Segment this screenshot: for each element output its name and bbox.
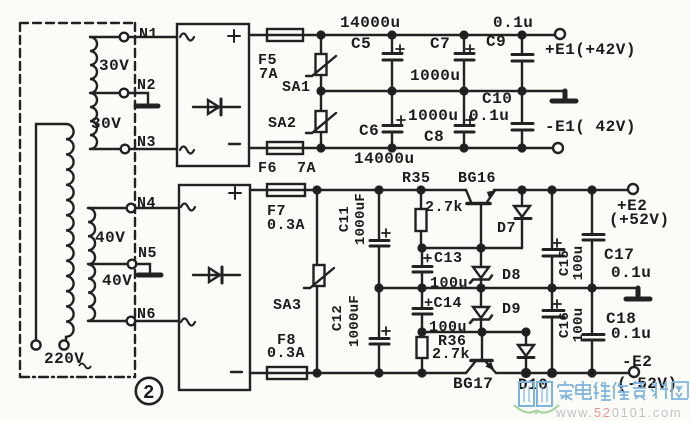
node D10 top — [523, 329, 530, 336]
node mid rail at C11 — [376, 285, 383, 292]
varistor SA1 — [306, 54, 336, 76]
transformer secondary winding 40V+40V — [88, 208, 95, 321]
svg-text:+C14: +C14 — [424, 295, 462, 312]
wire N5 stub — [136, 264, 150, 272]
bridge U2 diode symbol — [193, 267, 240, 283]
capacitor C13 — [413, 248, 432, 288]
capacitor C11 — [370, 190, 390, 288]
node BG17 base — [479, 329, 486, 336]
svg-text:D8: D8 — [502, 267, 521, 284]
node bottom rail at C12 — [376, 370, 383, 377]
svg-text:C10: C10 — [482, 90, 512, 108]
watermark book base green swoosh — [514, 405, 559, 414]
node BG16 base — [478, 245, 485, 252]
node bottom rail at D10 — [522, 369, 530, 377]
watermark chinese char 5 (zi) — [633, 381, 646, 400]
wire tap N4 — [88, 207, 127, 209]
node bottom rail at C16 — [548, 369, 556, 377]
watermark chinese char 3 (wei) — [594, 382, 611, 400]
terminal +E1 — [555, 29, 565, 39]
bridge U2 AC mark top — [181, 204, 195, 211]
node top rail at SA3 — [314, 187, 321, 194]
svg-text:D7: D7 — [497, 220, 516, 237]
node R35 bottom — [419, 245, 426, 252]
svg-text:R35: R35 — [402, 170, 431, 187]
svg-text:1000uF: 1000uF — [347, 295, 363, 347]
primary terminal (right) — [59, 340, 68, 349]
node on rail at C7 — [461, 32, 468, 39]
svg-text:BG16: BG16 — [458, 170, 496, 187]
capacitor C16 — [543, 288, 564, 373]
ground at N2 — [136, 104, 158, 109]
wire N3 to bridge — [129, 148, 177, 150]
svg-text:N1: N1 — [139, 26, 158, 43]
capacitor C7 — [455, 35, 474, 91]
wire bridge U1 + output — [249, 34, 267, 36]
svg-text:C13: C13 — [434, 250, 463, 267]
svg-text:2.7k: 2.7k — [425, 199, 463, 216]
svg-text:www.520101.com: www.520101.com — [555, 405, 682, 420]
wire tap N1 — [90, 36, 120, 38]
node N2 terminal — [120, 89, 129, 98]
watermark chinese char 1 (jia) — [558, 381, 573, 400]
node N4 terminal — [127, 204, 136, 213]
fuse F5 — [267, 29, 303, 41]
node on rail at SA1 — [318, 32, 325, 39]
node mid rail at C7 — [461, 88, 468, 95]
watermark book icon — [519, 382, 552, 406]
svg-text:SA2: SA2 — [268, 115, 297, 132]
terminal -E2 — [629, 367, 639, 377]
svg-text:N3: N3 — [137, 134, 156, 151]
svg-text:SA3: SA3 — [273, 297, 302, 314]
bridge U2 minus mark — [231, 371, 242, 373]
svg-text:C12: C12 — [330, 305, 346, 331]
wire top rail channel 2 right — [494, 189, 628, 191]
transistor BG16 — [466, 190, 495, 248]
node top rail at C11 — [376, 187, 383, 194]
svg-text:40V: 40V — [102, 272, 132, 290]
capacitor C5 — [383, 35, 404, 91]
svg-text:1000uF: 1000uF — [353, 193, 369, 245]
node N1 terminal — [120, 33, 129, 42]
svg-text:N5: N5 — [138, 245, 157, 262]
wire top rail channel 2 left — [305, 189, 466, 191]
fuse F6 — [267, 142, 303, 154]
svg-text:0.3A: 0.3A — [267, 217, 305, 234]
capacitor C14 — [413, 288, 432, 332]
ground at N5 — [138, 273, 161, 278]
watermark chinese char 2 (dian) — [576, 381, 591, 399]
capacitor C9 — [512, 35, 533, 91]
svg-text:7A: 7A — [259, 66, 278, 83]
transformer T primary winding — [36, 124, 74, 340]
capacitor C6 — [383, 91, 405, 148]
svg-text:+E1(+42V): +E1(+42V) — [545, 41, 636, 59]
watermark chinese char 7 (wang) — [672, 382, 688, 399]
svg-text:100u: 100u — [430, 275, 468, 292]
wire SA3 column — [316, 190, 318, 373]
transformer secondary winding 30V+30V — [90, 37, 97, 149]
wire bridge U2 + output — [250, 189, 267, 191]
varistor SA3 — [304, 265, 334, 288]
svg-text:C11: C11 — [337, 206, 353, 232]
svg-text:14000u: 14000u — [340, 14, 401, 32]
transistor BG17 — [466, 332, 496, 373]
svg-text:-E2: -E2 — [622, 353, 652, 371]
svg-text:BG17: BG17 — [453, 375, 493, 393]
zener diode D8 — [470, 248, 492, 288]
tilde under 220V — [79, 364, 91, 369]
svg-text:SA1: SA1 — [282, 79, 311, 96]
node SA1-SA2 junction — [318, 88, 325, 95]
wire mid rail channel 1 (ground rail) — [321, 90, 565, 92]
svg-text:C7: C7 — [430, 35, 450, 53]
node bottom rail at SA3 — [314, 370, 321, 377]
wire SA1 SA2 column — [320, 35, 322, 148]
resistor R35 — [416, 190, 427, 248]
capacitor C15 — [543, 190, 564, 288]
svg-text:1000u: 1000u — [408, 107, 459, 125]
zener diode D9 — [470, 288, 492, 332]
node top rail at C15 — [549, 187, 556, 194]
capacitor C10 — [512, 91, 533, 148]
wire lower base row (y=332) — [422, 331, 526, 333]
svg-text:0.3A: 0.3A — [267, 345, 305, 362]
node mid rail at C15 — [549, 285, 556, 292]
wire N6 to bridge — [135, 320, 179, 322]
wire bottom rail channel 2 left — [307, 372, 466, 374]
node bottom rail at R36 — [419, 370, 426, 377]
svg-text:7A: 7A — [297, 160, 316, 177]
wire bridge U2 - output — [250, 372, 267, 374]
svg-text:C5: C5 — [351, 35, 371, 53]
primary terminal (left) — [31, 340, 40, 349]
wire N2 stub — [128, 93, 148, 103]
svg-text:D9: D9 — [502, 301, 521, 318]
fuse F7 — [267, 184, 305, 196]
schematic number circle 2 — [136, 378, 162, 404]
node mid rail at D8 — [478, 285, 485, 292]
diode D10 — [518, 332, 534, 373]
watermark chinese char 6 (liao) — [651, 381, 668, 399]
svg-text:30V: 30V — [99, 57, 129, 75]
svg-text:100u: 100u — [571, 308, 587, 343]
ground symbol channel 1 — [552, 91, 576, 101]
svg-text:C8: C8 — [424, 128, 444, 146]
wire N4 to bridge — [135, 207, 179, 209]
wire tap N6 — [88, 320, 127, 322]
node top rail at C17 — [589, 187, 596, 194]
svg-text:0.1u: 0.1u — [469, 107, 509, 125]
node mid rail at C9 — [519, 88, 526, 95]
wire bottom rail channel 2 right — [496, 372, 629, 374]
capacitor C17 — [583, 190, 604, 288]
svg-text:100u: 100u — [571, 246, 587, 281]
svg-text:(+52V): (+52V) — [609, 211, 670, 229]
node on rail at C5 — [389, 32, 396, 39]
svg-text:0.1u: 0.1u — [493, 14, 533, 32]
wire tap N3 — [90, 148, 121, 150]
svg-text:N6: N6 — [137, 306, 156, 323]
wire tap N2 — [90, 92, 120, 94]
node mid rail at C17 — [589, 285, 596, 292]
node N3 terminal — [121, 145, 130, 154]
bridge U2 plus mark — [229, 187, 241, 199]
svg-text:2: 2 — [143, 382, 154, 404]
svg-text:14000u: 14000u — [354, 150, 415, 168]
bridge U1 plus mark — [228, 30, 240, 42]
node bottom rail at C6 — [389, 145, 396, 152]
svg-text:(-52V): (-52V) — [617, 375, 678, 393]
bridge U1 diode symbol — [193, 99, 240, 115]
diode D7 — [514, 190, 531, 248]
wire mid rail channel 2 — [379, 287, 638, 289]
wire top rail channel 1 — [303, 34, 555, 36]
transformer dashed enclosure box — [20, 23, 135, 377]
bridge U1 AC mark bottom — [180, 147, 194, 154]
node bottom rail at C8 — [461, 145, 468, 152]
ground symbol channel 2 — [626, 288, 650, 299]
svg-text:0.1u: 0.1u — [611, 325, 651, 343]
wire bottom rail channel 1 — [303, 147, 553, 149]
capacitor C18 — [583, 288, 604, 373]
node top rail at R35 — [418, 187, 425, 194]
capacitor C8 — [455, 91, 474, 148]
svg-text:C9: C9 — [486, 33, 506, 51]
wire tap N5 — [88, 263, 128, 265]
bridge rectifier U1 box — [177, 24, 249, 166]
varistor SA2 — [306, 111, 336, 133]
svg-text:1000u: 1000u — [410, 67, 461, 85]
node mid rail at C13 — [419, 285, 426, 292]
node mid rail at C5 — [389, 88, 396, 95]
svg-text:30V: 30V — [91, 115, 121, 133]
svg-text:0.1u: 0.1u — [611, 264, 651, 282]
wire base node row (y=248) — [422, 247, 522, 249]
bridge U1 AC mark top — [180, 34, 194, 41]
node top rail at D7 — [519, 187, 526, 194]
bridge U1 minus mark — [229, 143, 240, 145]
node bottom rail at C10 — [519, 145, 526, 152]
svg-text:N4: N4 — [137, 195, 156, 212]
svg-text:F6: F6 — [258, 160, 277, 177]
svg-text:C17: C17 — [604, 246, 634, 264]
node bottom rail at SA2 — [318, 145, 325, 152]
wire N1 to bridge — [128, 36, 177, 38]
bridge rectifier U2 box — [179, 185, 250, 390]
resistor R36 — [417, 332, 428, 373]
node R36 top — [419, 329, 426, 336]
node on rail at C9 — [519, 32, 526, 39]
svg-text:-E1( 42V): -E1( 42V) — [545, 118, 636, 136]
svg-text:N2: N2 — [137, 77, 156, 94]
terminal +E2 — [628, 184, 638, 194]
terminal -E1 — [553, 143, 563, 153]
node N6 terminal — [127, 317, 136, 326]
bridge U2 AC mark bottom — [181, 319, 195, 326]
watermark chinese char 4 (xiu) — [613, 382, 629, 399]
svg-text:40V: 40V — [95, 229, 125, 247]
node bottom rail at C18 — [589, 370, 596, 377]
wire bridge U1 - output — [249, 147, 267, 149]
svg-text:220V: 220V — [44, 350, 84, 368]
capacitor C12 — [370, 288, 390, 373]
svg-text:2.7k: 2.7k — [432, 346, 470, 363]
node N5 terminal — [128, 260, 137, 269]
svg-text:C6: C6 — [359, 122, 379, 140]
fuse F8 — [267, 367, 307, 379]
